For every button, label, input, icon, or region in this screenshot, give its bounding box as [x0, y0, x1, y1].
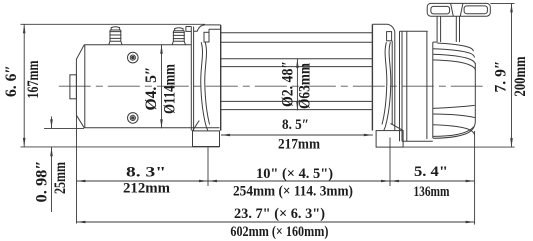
ext line x=390 (right foot) — [389, 138, 391, 187]
svg-text:212mm: 212mm — [123, 181, 170, 197]
svg-text:136mm: 136mm — [414, 184, 450, 200]
terminal stud 2 — [172, 28, 185, 45]
arrow 23.7 left — [77, 221, 86, 224]
drum with cable — [221, 59, 372, 110]
ext line top-left (support top) — [21, 23, 206, 25]
svg-text:254mm (× 114. 3mm): 254mm (× 114. 3mm) — [233, 184, 353, 200]
dim line 23.7"/602mm — [77, 221, 475, 223]
dim line dia4.5 — [161, 45, 163, 128]
dim line dia2.48 — [296, 59, 298, 111]
dim chain line y=181 — [77, 180, 475, 182]
base bottom line left — [21, 146, 220, 148]
right drum support plate — [372, 24, 403, 130]
svg-text:217mm: 217mm — [278, 137, 320, 153]
svg-text:0. 98″: 0. 98″ — [34, 161, 51, 203]
motor bolt top — [128, 52, 139, 63]
arrow 7.9 top — [510, 3, 513, 12]
svg-text:Ø114mm: Ø114mm — [162, 63, 179, 114]
arrow 10 left — [208, 180, 217, 183]
gear housing left section — [400, 31, 433, 141]
arrow 10 right — [381, 180, 390, 183]
arrow 5.4 right — [466, 180, 475, 183]
motor end cap — [70, 75, 77, 99]
arrow 6.6 bottom — [23, 138, 26, 147]
arrow dia4.5 bottom — [160, 119, 163, 128]
dim line 0.98"/25mm — [51, 117, 53, 213]
arrow 8.5 left — [221, 134, 230, 137]
svg-text:23. 7" (× 6. 3"): 23. 7" (× 6. 3") — [234, 206, 325, 222]
arrow 0.98 up — [50, 147, 53, 156]
svg-text:Ø2. 48″: Ø2. 48″ — [280, 61, 297, 107]
ext line x=76.5 (motor left) — [76, 116, 78, 224]
centerline — [59, 85, 488, 87]
svg-text:Ø4. 5″: Ø4. 5″ — [143, 67, 160, 111]
clutch T-handle — [427, 3, 490, 16]
motor housing M1 — [76, 45, 219, 128]
svg-text:10" (× 4. 5"): 10" (× 4. 5") — [256, 166, 333, 182]
svg-text:602mm (× 160mm): 602mm (× 160mm) — [230, 224, 328, 240]
ext line x=208 (foot) — [207, 148, 209, 187]
svg-text:8. 5″: 8. 5″ — [282, 117, 309, 133]
arrow 7.9 bottom — [510, 138, 513, 147]
terminal stud 1 — [109, 27, 122, 45]
motor bolt bottom — [128, 113, 139, 124]
left foot — [193, 131, 220, 147]
ext line 7.9 top — [490, 2, 514, 4]
svg-text:200mm: 200mm — [512, 56, 529, 97]
right foot — [376, 131, 403, 148]
tie bar — [221, 33, 373, 42]
svg-text:25mm: 25mm — [52, 161, 69, 194]
svg-text:8. 3": 8. 3" — [126, 165, 166, 181]
svg-text:Ø63mm: Ø63mm — [297, 62, 314, 109]
dim line 7.9"/200mm — [511, 3, 513, 147]
gear housing ribbed barrel — [433, 43, 476, 138]
dim line 8.5"/217mm — [221, 134, 373, 136]
svg-text:6. 6″: 6. 6″ — [3, 65, 20, 97]
arrow dia2.48 bottom — [296, 101, 299, 110]
arrow 0.98 down — [50, 119, 53, 128]
arrow dia4.5 top — [160, 45, 163, 54]
svg-text:5. 4": 5. 4" — [414, 164, 448, 180]
svg-text:167mm: 167mm — [25, 60, 42, 99]
arrow 8.3 right — [199, 180, 208, 183]
svg-text:7. 9″: 7. 9″ — [493, 61, 510, 93]
arrow 8.5 right — [364, 134, 373, 137]
arrow dia2.48 top — [296, 59, 299, 68]
arrow 5.4 left — [390, 180, 399, 183]
dim line 6.6"/167mm — [23, 24, 25, 147]
ext line x=474.6 (housing right) — [474, 131, 476, 225]
arrow 23.7 right — [466, 221, 475, 224]
arrow 6.6 top — [23, 24, 26, 33]
arrow 8.3 left — [77, 180, 86, 183]
base bottom extension right — [403, 146, 514, 148]
clutch handle stem — [433, 16, 460, 42]
left drum support plate — [186, 25, 221, 131]
ext line motor bottom — [44, 127, 84, 129]
